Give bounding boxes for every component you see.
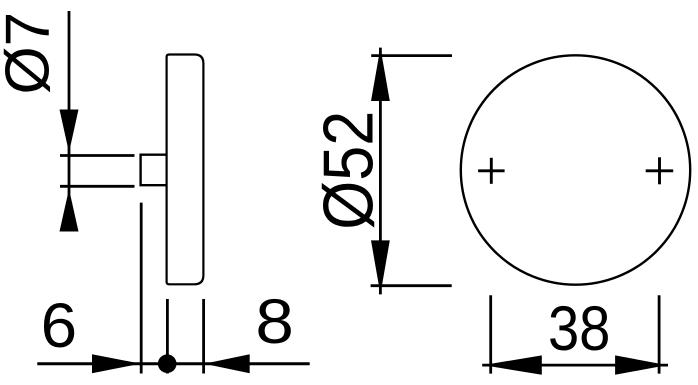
svg-text:38: 38	[548, 294, 611, 364]
dimension Ø52: top arrowhead (points up)	[371, 48, 390, 101]
dimension 6/8: extension line from disc back face	[202, 299, 205, 374]
dimension 6: arrowhead (points right)	[92, 354, 141, 373]
dimension Ø7: dimension line	[68, 11, 71, 232]
dimension 38: left extension line	[489, 295, 492, 373]
front view: right screw-hole cross	[646, 157, 674, 184]
dimension Ø7: lower arrowhead (points up)	[60, 189, 79, 232]
dimension Ø7: top extension line	[60, 154, 135, 157]
side view: spindle stub	[141, 155, 167, 186]
dimension 38: left arrowhead (points left)	[483, 355, 542, 374]
front view: left screw-hole cross	[478, 158, 505, 184]
svg-text:Ø52: Ø52	[309, 111, 388, 230]
side view: rosette disc outline	[167, 55, 204, 285]
svg-text:Ø7: Ø7	[0, 12, 63, 95]
dimension Ø7: bottom extension line	[60, 185, 135, 188]
dimension 6/8: extension line from disc front face	[166, 299, 169, 374]
dimension 38: right extension line	[658, 295, 661, 373]
svg-text:8: 8	[255, 287, 294, 357]
dimension 6/8: shared junction dot	[158, 354, 177, 373]
front view: rosette circle	[461, 55, 690, 284]
dimension 38: dimension line	[482, 364, 668, 367]
dimension 38: right arrowhead (points right)	[615, 355, 667, 374]
dimension Ø7: upper arrowhead (points down)	[60, 110, 79, 153]
svg-text:6: 6	[41, 291, 78, 361]
dimension 6/8: extension line from stub face	[140, 203, 143, 374]
dimension 8: arrowhead (points left)	[204, 354, 250, 373]
dimension Ø52: top extension line	[371, 54, 452, 57]
dimension 6/8: dimension line	[37, 362, 309, 365]
dimension Ø52: bottom extension line	[371, 284, 452, 287]
dimension Ø52: bottom arrowhead (points down)	[371, 240, 390, 294]
dimension Ø52: dimension line	[379, 48, 382, 295]
